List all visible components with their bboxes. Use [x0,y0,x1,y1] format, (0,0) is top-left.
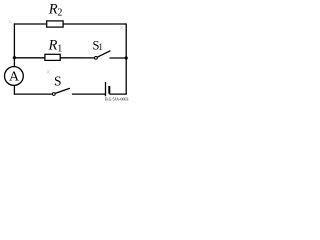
wire bottom center [72,93,106,95]
battery [106,82,110,96]
svg-text:R: R [48,1,58,17]
svg-text:2: 2 [57,7,62,18]
svg-text:1: 1 [57,44,62,55]
label S1 [93,38,103,52]
svg-text:A: A [9,69,20,84]
wire left vertical lower [13,86,15,95]
wire bottom left [14,93,53,95]
ammeter A [5,67,24,86]
watermark marks [9,21,124,75]
svg-text:1: 1 [98,42,103,52]
wire middle branch right [110,57,127,59]
switch S [52,88,70,95]
resistor R1 [45,54,60,60]
svg-text:S: S [54,73,62,88]
wire right vertical [125,23,127,94]
wire bottom right [109,93,127,95]
node junction left [13,56,16,59]
label R2 [48,1,63,18]
label R1 [48,38,63,55]
svg-text:R: R [48,38,58,54]
svg-text:B.G 5JA-0003: B.G 5JA-0003 [105,97,128,102]
switch S1 [95,51,111,60]
node junction right [125,56,128,59]
wire left vertical upper [13,23,15,66]
wire middle branch center [60,57,94,59]
wire middle branch left [14,57,45,59]
wire R2 to top-right [63,23,127,25]
resistor R2 [47,21,63,27]
wire top-left to R2 [14,23,47,25]
